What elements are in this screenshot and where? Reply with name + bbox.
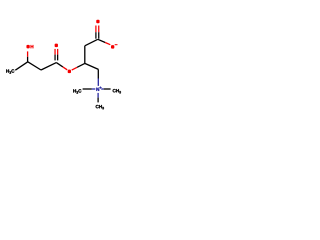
chemical structure: O-(3-hydroxybutyryl)-L-carnitine bbox=[0, 0, 130, 130]
bond C3-O5 black half bbox=[56, 63, 63, 67]
bond N-left methyl black half bbox=[83, 88, 92, 90]
bond O5-C6 black half bbox=[77, 63, 85, 67]
double bond C8=O9 line b red bbox=[98, 26, 100, 33]
methyl label H3C bbox=[6, 69, 14, 73]
double bond C3=O4 line a red bbox=[54, 49, 56, 55]
bond C1-C2 bbox=[28, 62, 41, 70]
left methyl label H3C bbox=[73, 89, 81, 93]
bond N-right methyl blue half bbox=[101, 88, 104, 90]
bond N-bottom methyl blue half bbox=[97, 93, 99, 98]
bond C8-O10 red half bbox=[105, 43, 110, 45]
bond O5-C6 red half bbox=[72, 67, 77, 70]
bond C6-C11 bbox=[85, 63, 99, 69]
double bond C3=O4 line b black bbox=[57, 55, 59, 61]
bond N-right methyl black half bbox=[104, 88, 111, 90]
bond C2-C3 bbox=[41, 63, 56, 70]
hydroxyl label H of OH bbox=[31, 45, 34, 48]
bond N-bottom methyl black half bbox=[97, 98, 99, 103]
ester oxygen O5 bbox=[68, 70, 71, 74]
bond C7-C8 bbox=[85, 39, 98, 46]
double bond C8=O9 line b black bbox=[98, 32, 100, 39]
bond C11-N black half bbox=[97, 69, 99, 78]
carboxylate oxygen O9 bbox=[96, 20, 99, 24]
double bond C8=O9 line a black bbox=[95, 32, 97, 39]
bond OH-C1 black half bbox=[27, 57, 29, 62]
bond C8-O10 black half bbox=[98, 39, 105, 42]
double bond C8=O9 line a red bbox=[95, 26, 97, 33]
superscript minus of O10 bbox=[115, 44, 118, 45]
plus sign of N bbox=[99, 86, 101, 88]
bond N-left methyl blue half bbox=[92, 88, 96, 90]
carbonyl oxygen O4 bbox=[55, 44, 58, 48]
right methyl label CH3 bbox=[113, 89, 121, 93]
nitrogen label N+ bbox=[96, 88, 99, 91]
bond C1-H3C bbox=[15, 62, 27, 70]
bond OH-C1 red half bbox=[27, 51, 29, 56]
double bond C3=O4 line a black bbox=[54, 55, 56, 61]
double bond C3=O4 line b red bbox=[57, 49, 59, 55]
bond C6-C7 bbox=[84, 46, 86, 64]
bond C3-O5 red half bbox=[63, 67, 67, 70]
bottom methyl label CH3 bbox=[96, 105, 104, 109]
bond C11-N blue half bbox=[97, 79, 99, 86]
hydroxyl label O of OH bbox=[26, 45, 29, 49]
carboxylate oxygen O10 bbox=[111, 45, 114, 49]
